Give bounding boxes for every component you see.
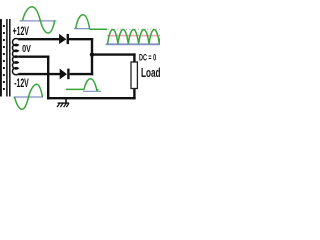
svg-text:-12V: -12V (14, 76, 29, 90)
svg-text:+12V: +12V (13, 24, 30, 38)
svg-text:Load: Load (141, 65, 160, 80)
svg-text:0V: 0V (22, 44, 31, 55)
svg-text:DC = 0: DC = 0 (139, 52, 156, 62)
